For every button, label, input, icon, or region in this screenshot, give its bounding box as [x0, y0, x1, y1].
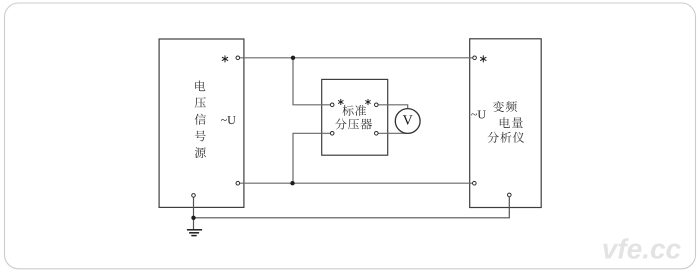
voltage source box 电压信号源: [159, 39, 244, 207]
divider box 标准分压器: [322, 79, 388, 155]
terminal: analyzer lower input terminal: [473, 181, 477, 185]
terminal: analyzer upper input terminal: [473, 56, 477, 60]
polarity mark * at analyzer upper terminal: [481, 56, 486, 62]
label ~U inside source box: [221, 116, 236, 124]
polarity mark * at divider left: [338, 99, 343, 104]
node C: junction of ground drop and bottom ground rail: [191, 216, 195, 220]
ground (earth) symbol: [187, 230, 202, 236]
wire: top junction down and right to divider upper-left terminal: [293, 58, 332, 105]
voltmeter letter V: [403, 115, 413, 124]
polarity mark * at source upper terminal: [222, 56, 227, 62]
terminal: divider upper-right terminal: [375, 103, 379, 107]
wire: lower rail from source lower terminal to analyzer lower terminal: [238, 182, 474, 184]
terminal: divider upper-left terminal: [330, 103, 334, 107]
watermark vfe.cc: [603, 238, 681, 260]
analyzer box 变频电量分析仪: [470, 39, 542, 208]
label ~U inside analyzer box: [471, 111, 486, 119]
voltmeter V circle: [395, 109, 420, 134]
wire: bottom ground rail up to analyzer ground terminal: [194, 195, 510, 218]
wire: divider lower-right terminal to voltmeter bottom: [376, 132, 407, 134]
label: divider caption 分压器: [335, 118, 372, 129]
polarity mark * at divider right: [366, 99, 371, 104]
wire: divider upper-right terminal to voltmeter top: [376, 105, 407, 110]
wire: ground drop from source ground terminal: [193, 195, 195, 229]
terminal: source lower output terminal: [236, 181, 240, 185]
terminal: source upper output terminal: [236, 56, 240, 60]
node A: junction on top rail: [291, 56, 295, 60]
label: divider caption 标准: [342, 105, 366, 116]
label: analyzer caption 变频电量分析仪: [488, 101, 525, 143]
node B: junction on lower rail: [290, 181, 294, 185]
terminal: divider lower-left terminal: [330, 132, 334, 136]
wire: top rail from source upper terminal to analyzer upper terminal: [238, 57, 475, 59]
terminal: source ground terminal: [192, 194, 196, 198]
wire: divider lower-left terminal left and down to lower rail junction: [293, 133, 332, 183]
terminal: analyzer ground terminal: [508, 193, 512, 197]
terminal: divider lower-right terminal: [375, 132, 379, 136]
label: source caption 电压信号源: [195, 80, 206, 158]
